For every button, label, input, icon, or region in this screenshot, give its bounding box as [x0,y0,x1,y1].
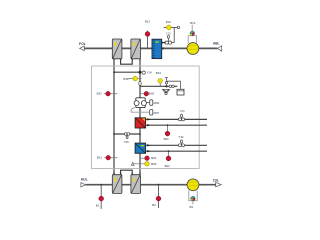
fan M1 top [187,36,199,55]
valve Y12 branch [162,31,175,44]
wire heating return pipe [146,124,207,126]
svg-text:AUL: AUL [81,178,88,182]
valve Y24 [142,71,145,74]
filter F1 [112,39,122,59]
node junction right of HX [162,47,164,49]
svg-text:M06: M06 [154,101,160,105]
node junction header-left [113,71,115,73]
svg-text:Y35: Y35 [124,140,130,144]
svg-text:B31: B31 [97,155,103,159]
svg-text:M07: M07 [154,111,160,115]
valve Y32 [178,135,184,147]
filter F3 [112,175,122,194]
svg-text:B22: B22 [165,164,171,168]
wire left water column [113,59,115,175]
valve Y35 [124,133,130,145]
wire B12 stub [147,31,149,49]
svg-text:B13: B13 [190,21,196,25]
node FOL outlet arrow [80,46,85,51]
svg-text:Y12: Y12 [166,31,172,35]
sensor B22 [168,151,170,156]
node ABL intake funnel [217,46,221,51]
svg-text:Y32: Y32 [178,135,184,139]
sensor B1 [100,184,102,186]
svg-text:B34: B34 [156,71,162,75]
svg-text:B2: B2 [152,203,156,207]
svg-text:B3: B3 [190,205,194,209]
wire humidifier line [140,85,177,87]
svg-text:B1: B1 [96,204,100,208]
wire main water column [139,59,141,98]
valve Y21 [178,109,185,121]
svg-text:B03: B03 [149,92,155,96]
box AHU enclosure [92,66,200,169]
svg-text:B16: B16 [166,20,172,24]
cooler coil [135,143,146,153]
wire bypass branch [114,133,140,135]
node junction bypass ends [113,133,115,135]
sensor B3 [190,196,196,209]
filter F2 [131,39,141,59]
svg-text:B06: B06 [151,162,157,166]
fan M2 bottom [187,179,199,201]
sensor B06 [131,162,134,165]
wire bottom duct [85,184,215,186]
wire steam generator feed [167,81,181,89]
svg-text:B12: B12 [145,19,151,23]
wire bridge above bottom filters [121,170,133,175]
node junction Y24 [139,71,142,74]
wire top header [114,71,140,73]
sensor B03 [144,91,149,96]
motor M07 [150,110,153,116]
wire bridge under top filters [121,59,133,64]
wire top duct [84,47,217,49]
svg-text:B36: B36 [123,77,129,81]
svg-text:B21: B21 [164,137,170,141]
humidifier nozzles [169,85,172,88]
wire gray bypass [131,107,150,113]
sensor B21 [167,125,169,131]
pump unit [134,98,146,108]
sensor B04 [140,157,145,159]
svg-text:ZUL: ZUL [213,179,219,183]
wire cooling return pipe [146,150,207,152]
filter F4 [131,175,141,194]
svg-text:Y24: Y24 [147,71,153,75]
sensor B16 [166,25,171,30]
svg-text:Y21: Y21 [180,109,186,113]
sensor B2 [158,184,160,186]
steam generator [177,89,184,95]
sensor B12 [145,32,150,37]
svg-text:B04: B04 [151,156,157,160]
wire B16 riser [173,27,175,42]
node terminal circle [177,26,179,28]
heat exchanger HX [152,39,162,58]
humidifier steam pipe [165,78,168,87]
heater coil [135,118,146,128]
svg-text:ABL: ABL [213,42,220,46]
drain funnel [163,89,170,94]
node ZUL outlet arrow [216,182,222,186]
motor M06 [146,102,149,104]
svg-text:FOL: FOL [79,42,86,46]
sensor B13 [190,21,196,36]
wire heating supply pipe [146,118,207,120]
svg-text:B32: B32 [97,91,103,95]
wire filter drop arrows top row [113,59,141,61]
valve restrictor [139,81,141,85]
wire cooling supply pipe [146,144,207,146]
node AUL inlet arrow [81,183,86,187]
wire filter drop arrows bottom row [113,173,141,175]
